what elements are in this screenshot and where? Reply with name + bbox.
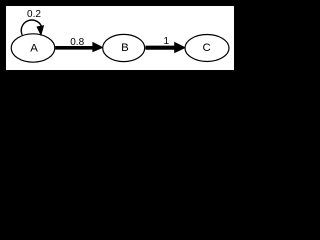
edge label 0.2 [27, 9, 41, 20]
svg-text:0.2: 0.2 [27, 9, 41, 20]
svg-text:0.8: 0.8 [70, 37, 84, 48]
svg-text:1: 1 [164, 36, 170, 47]
svg-text:C: C [202, 42, 210, 54]
svg-text:B: B [121, 42, 129, 54]
svg-text:A: A [30, 43, 38, 55]
edge A->B [55, 42, 103, 52]
self-loop edge A->A [21, 20, 43, 35]
edge B->C [145, 42, 185, 53]
node B [103, 34, 145, 61]
edge label 1 [164, 36, 170, 47]
node C [185, 35, 229, 62]
node A [11, 34, 55, 62]
edge label 0.8 [70, 37, 84, 48]
